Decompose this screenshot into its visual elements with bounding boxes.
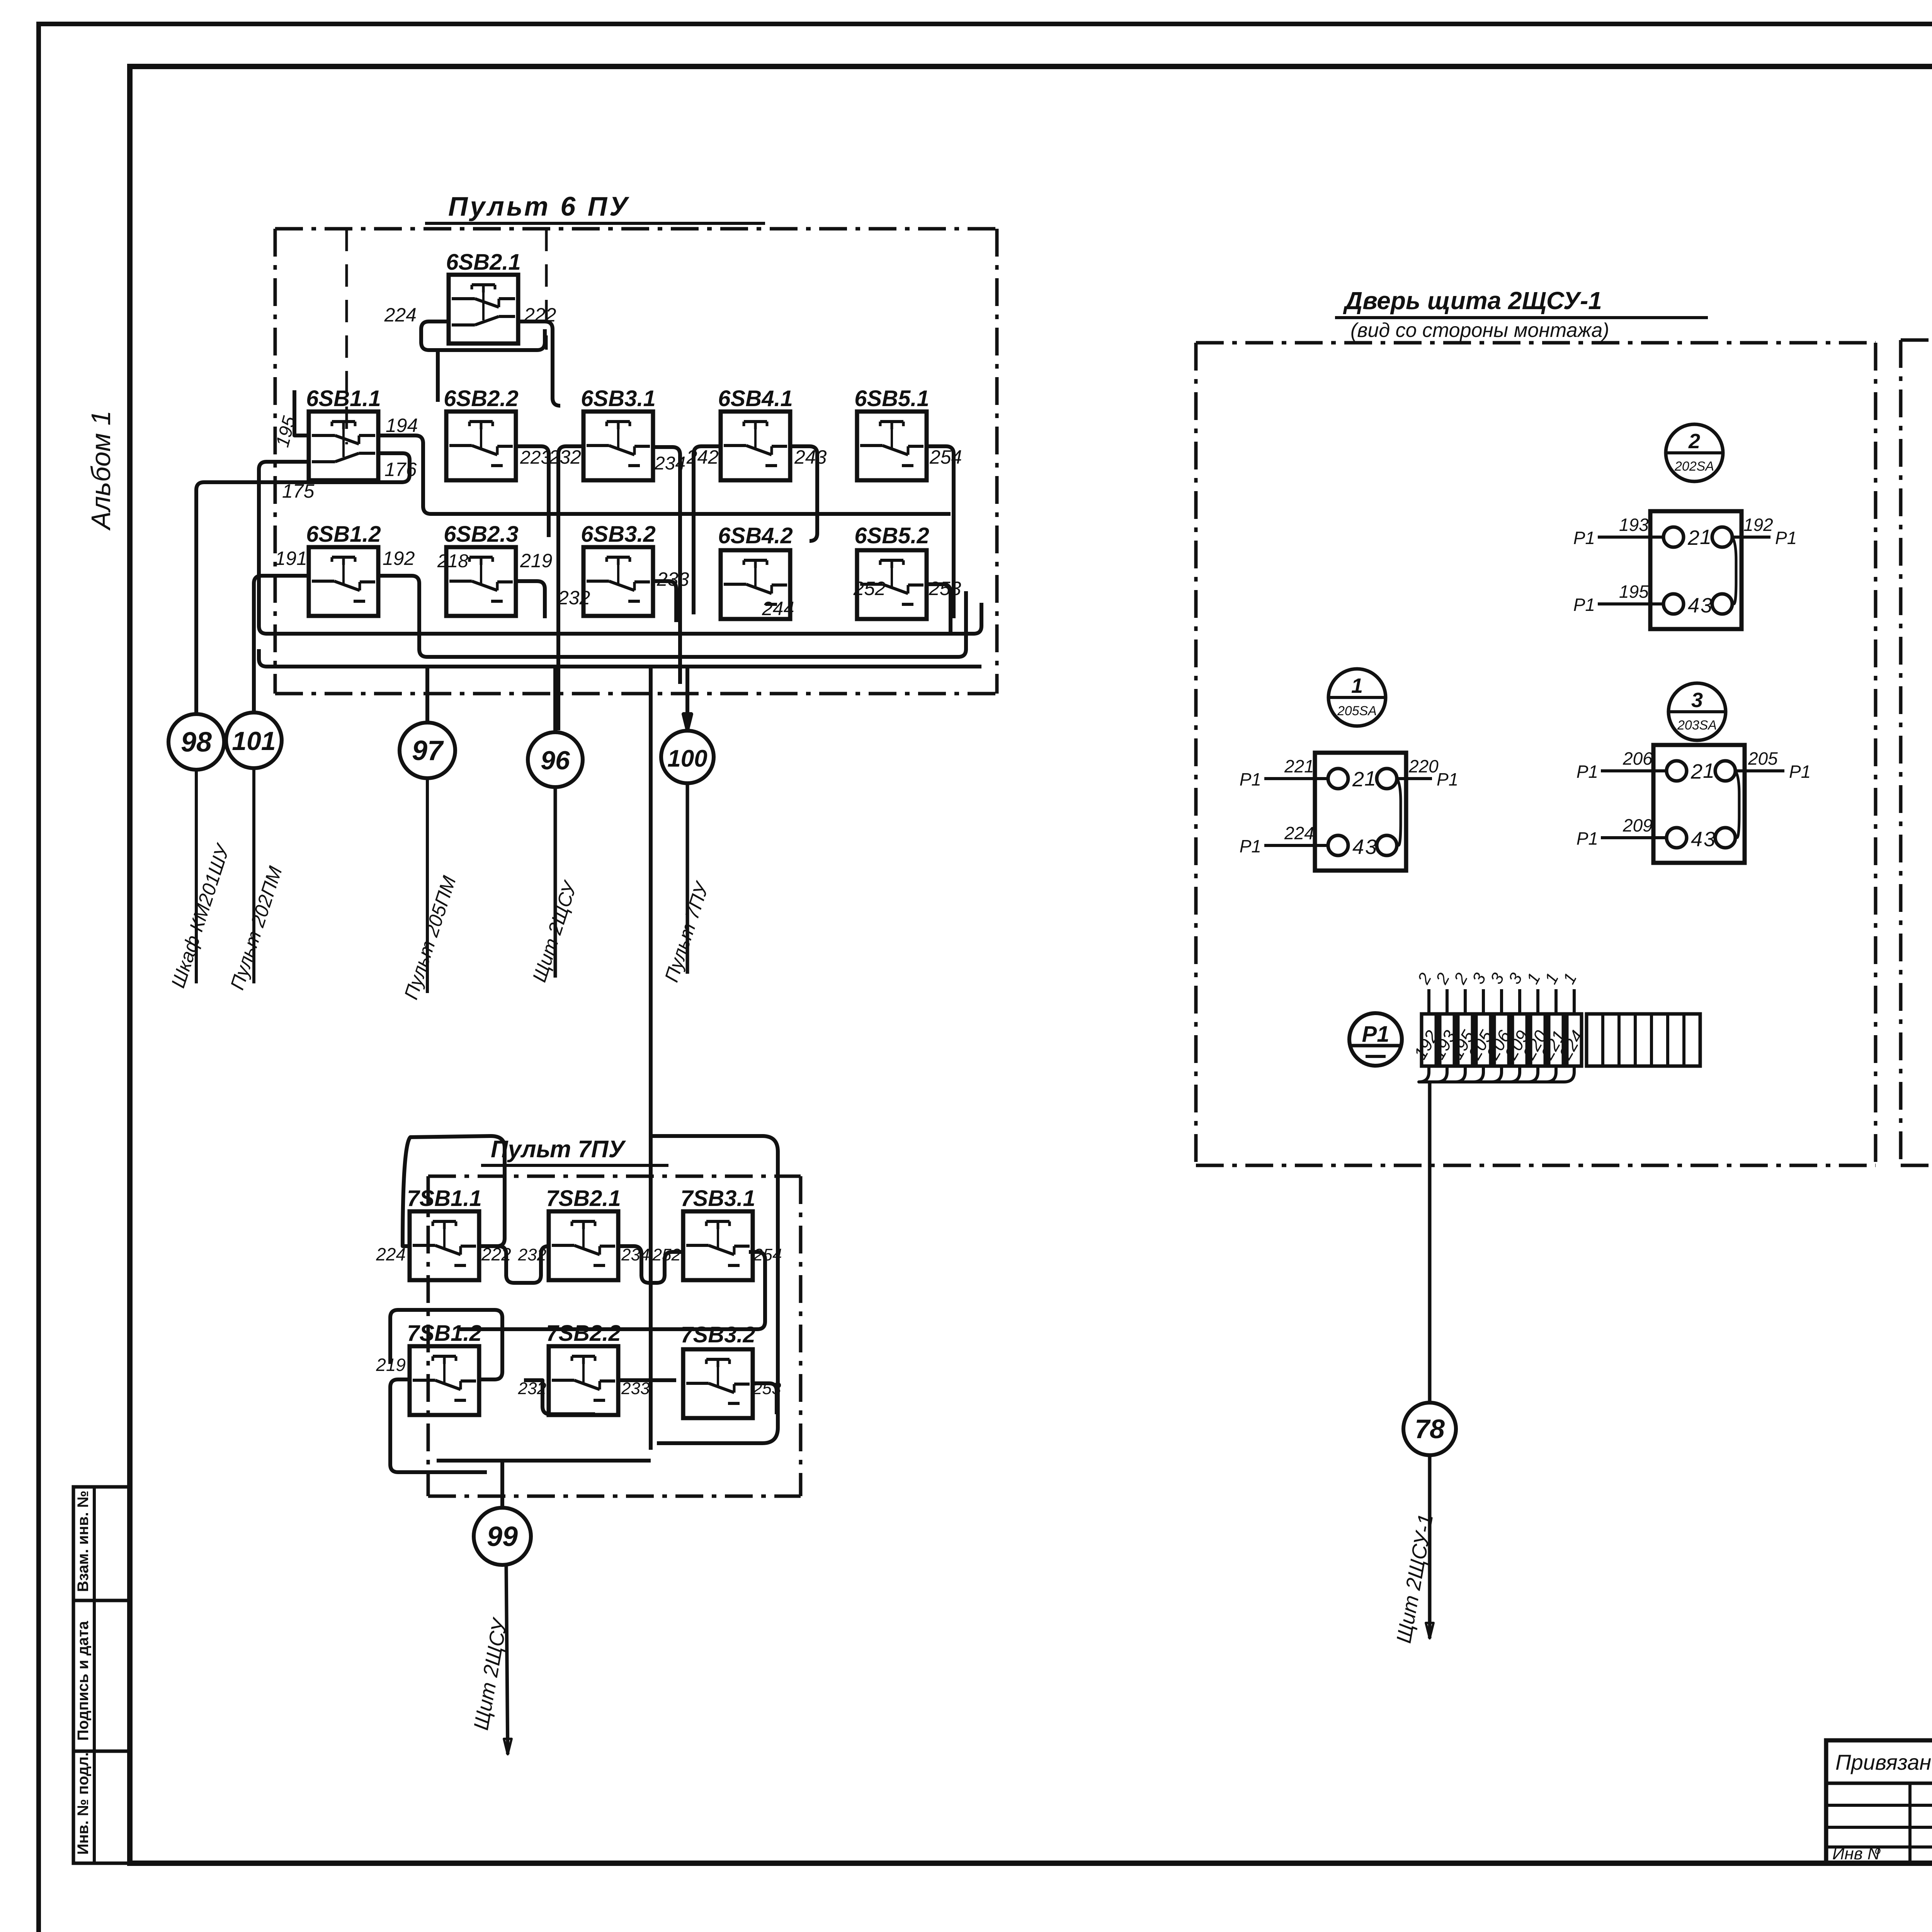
- svg-text:193: 193: [1619, 515, 1649, 535]
- push-button 6SB3.1: [581, 386, 655, 480]
- wire drop 6ПУ to 7ПУ: [649, 667, 653, 1206]
- wire 222-232 link 7SB1.1 to 7SB2.1: [479, 1246, 549, 1283]
- label Пульт 6 ПУ: [425, 191, 765, 223]
- svg-text:1: 1: [1700, 526, 1711, 549]
- wire 219 lead 7SB1.2: [390, 1379, 487, 1472]
- svg-text:101: 101: [232, 726, 276, 756]
- wire 192 P1 from 202SA pin1: [1732, 515, 1797, 548]
- panel box Дверь щита 2ЩСУ-1 (dash-dot): [1196, 343, 1876, 1165]
- wire feeder from 6ПУ down right side of 7ПУ: [649, 667, 653, 1450]
- svg-text:4: 4: [1688, 594, 1699, 617]
- svg-text:6SB2.2: 6SB2.2: [444, 386, 518, 411]
- wire P1 193 to 202SA pin2: [1573, 515, 1663, 548]
- cable to Щит 2ЩСУ-1 with arrow: [1392, 1455, 1438, 1645]
- svg-text:221: 221: [1284, 756, 1314, 776]
- svg-text:(вид со стороны монтажа): (вид со стороны монтажа): [1350, 319, 1609, 342]
- cable to Шкаф КМ201ШУ: [167, 770, 234, 990]
- terminal strip of panel 1: [1410, 970, 1700, 1066]
- svg-text:3: 3: [1701, 594, 1712, 617]
- svg-text:96: 96: [541, 746, 570, 775]
- svg-text:Подпись и дата: Подпись и дата: [75, 1621, 92, 1741]
- svg-text:209: 209: [1622, 815, 1653, 835]
- svg-text:7SB3.1: 7SB3.1: [680, 1186, 755, 1211]
- stamp column box Взам. инв. №: [73, 1487, 130, 1600]
- svg-text:6SB1.2: 6SB1.2: [306, 522, 381, 547]
- wire 175 lead 6SB1.1 lower-left: [259, 462, 981, 634]
- wire 192 from 6SB1.2 right: [377, 576, 966, 657]
- svg-text:206: 206: [1622, 748, 1653, 769]
- wire P1 195 to 202SA pin4: [1573, 582, 1663, 615]
- svg-text:Взам. инв. №: Взам. инв. №: [75, 1491, 92, 1592]
- push-button 7SB2.2: [546, 1321, 621, 1415]
- node 98 (to Шкаф КМ201ШУ): [168, 714, 224, 770]
- svg-text:232: 232: [549, 446, 582, 468]
- svg-text:6SB2.3: 6SB2.3: [444, 522, 518, 547]
- svg-text:205: 205: [1748, 748, 1778, 769]
- wire P1 206 to 203SA pin2: [1577, 748, 1667, 782]
- contact block of 205SA: [1315, 753, 1406, 871]
- svg-text:1: 1: [1703, 759, 1714, 782]
- svg-text:Пульт 6 ПУ: Пульт 6 ПУ: [448, 191, 630, 221]
- panel box Пульт 6 ПУ (dash-dot boundary): [275, 229, 997, 694]
- svg-text:234: 234: [621, 1245, 650, 1264]
- svg-text:99: 99: [487, 1521, 518, 1552]
- svg-text:7SB1.2: 7SB1.2: [407, 1321, 481, 1346]
- svg-text:78: 78: [1415, 1414, 1445, 1444]
- svg-text:6SB4.2: 6SB4.2: [718, 523, 793, 548]
- svg-text:254: 254: [929, 446, 962, 468]
- wire 224 loop under 6SB2.1: [421, 321, 545, 350]
- contact block of 203SA: [1653, 745, 1745, 863]
- svg-text:Привязан: Привязан: [1835, 1750, 1931, 1774]
- wire 232 connection 6SB3.1 left: [558, 446, 583, 730]
- node 78 (Щит 2ЩСУ-1): [1403, 1403, 1456, 1455]
- wire 101 bus up to 6SB1.2 contact 191: [254, 576, 309, 711]
- svg-text:P1: P1: [1240, 836, 1261, 856]
- cable to Пульт 7ПУ: [660, 783, 713, 985]
- svg-text:Инв N: Инв N: [1832, 1844, 1880, 1863]
- svg-text:202SA: 202SA: [1674, 459, 1714, 474]
- stamp column box Подпись и дата: [73, 1600, 130, 1751]
- svg-text:7SB3.2: 7SB3.2: [680, 1322, 755, 1347]
- cable to Пульт 202ПМ: [226, 768, 286, 992]
- svg-text:224: 224: [1284, 823, 1314, 843]
- svg-text:3: 3: [1704, 828, 1715, 851]
- internal dashed divider at x=897: [345, 229, 348, 444]
- push-button 6SB4.2: [718, 523, 793, 619]
- svg-text:P1: P1: [1362, 1022, 1389, 1047]
- svg-text:7SB2.1: 7SB2.1: [546, 1186, 621, 1211]
- svg-text:4: 4: [1691, 828, 1702, 851]
- wire 6SB2.1 to 6SB2.2 drop: [436, 350, 440, 402]
- push-button 6SB3.2: [581, 522, 655, 616]
- wire P1 221 to 205SA pin2: [1240, 756, 1328, 789]
- node 99 (Щит 2ЩСУ): [474, 1508, 531, 1565]
- push-button 7SB3.2: [680, 1322, 755, 1418]
- connector P1: [1349, 1013, 1402, 1066]
- node 100 (to Пульт 7ПУ): [661, 731, 714, 783]
- svg-text:Инв. № подл.: Инв. № подл.: [75, 1752, 92, 1855]
- internal dashed divider at x=1414: [545, 229, 548, 350]
- svg-text:Альбом 1: Альбом 1: [86, 410, 116, 531]
- svg-text:P1: P1: [1437, 769, 1458, 789]
- cable to Пульт 205ПМ: [400, 778, 460, 1002]
- push-button 6SB2.3: [444, 522, 518, 616]
- push-button 6SB1.1: [306, 386, 381, 480]
- wire 7SB1.2 upper loop: [390, 1310, 502, 1379]
- svg-text:192: 192: [1743, 515, 1773, 535]
- wire 195 vertical lead 6SB1.1: [294, 390, 309, 435]
- selector switch 1/205SA: [1328, 669, 1386, 726]
- wire 254 loop from 7SB3.1 down: [460, 1252, 765, 1329]
- svg-text:195: 195: [1619, 582, 1649, 602]
- push-button 7SB1.1: [407, 1186, 481, 1280]
- cable to Щит 2ЩСУ: [528, 787, 582, 985]
- label Пульт 7ПУ: [481, 1136, 668, 1165]
- svg-text:4: 4: [1352, 835, 1364, 859]
- svg-text:6SB5.2: 6SB5.2: [854, 523, 929, 548]
- wire 233-253 link to bottom bus: [618, 1380, 777, 1414]
- svg-text:194: 194: [386, 415, 418, 436]
- push-button 7SB1.2: [407, 1321, 481, 1415]
- wire 232-233 row link 7SB2.2: [524, 1380, 595, 1414]
- node 96 (to Щит 2ЩСУ): [528, 732, 583, 787]
- panel box Пульт 7ПУ (dash-dot boundary): [428, 1176, 801, 1496]
- stamp column box Инв. № подл.: [73, 1751, 130, 1863]
- svg-text:P1: P1: [1573, 528, 1595, 548]
- wire P1 209 to 203SA pin4: [1577, 815, 1667, 849]
- terminal strip 1 outgoing hooks and bus: [1419, 1066, 1574, 1403]
- wire bottom bus of 7ПУ: [437, 1459, 651, 1463]
- svg-text:3: 3: [1691, 689, 1703, 712]
- svg-text:P1: P1: [1577, 828, 1598, 849]
- cable to Щит 2ЩСУ with arrow: [469, 1565, 512, 1754]
- svg-text:6SB3.2: 6SB3.2: [581, 522, 655, 547]
- svg-text:191: 191: [275, 548, 307, 569]
- svg-text:2: 2: [1690, 760, 1702, 783]
- svg-text:3: 3: [1365, 835, 1377, 859]
- push-button 6SB2.2: [444, 386, 518, 480]
- wire drop to circle 100: [685, 667, 689, 731]
- svg-text:205SA: 205SA: [1337, 704, 1377, 718]
- title block small table Привязан: [1826, 1740, 1932, 1863]
- svg-text:2: 2: [1688, 430, 1700, 453]
- push-button 6SB5.1: [854, 386, 929, 480]
- selector switch 2/202SA: [1666, 424, 1723, 481]
- wire 98 bus to 6SB1.1 contact 176: [196, 453, 410, 714]
- svg-text:100: 100: [667, 745, 707, 772]
- svg-text:244: 244: [762, 598, 794, 619]
- svg-text:97: 97: [412, 735, 444, 766]
- svg-text:252: 252: [853, 578, 886, 599]
- svg-text:219: 219: [520, 550, 552, 571]
- wire loop top of 7ПУ: [403, 1136, 505, 1246]
- svg-text:7SB2.2: 7SB2.2: [546, 1321, 621, 1346]
- svg-text:P1: P1: [1775, 528, 1797, 548]
- svg-text:Пульт 7ПУ: Пульт 7ПУ: [491, 1136, 626, 1163]
- svg-text:2: 2: [1687, 526, 1699, 549]
- svg-text:P1: P1: [1573, 595, 1595, 615]
- wire 233 connection 6SB3.2 right: [651, 581, 676, 622]
- wire 222 from 6SB2.1 right: [518, 321, 560, 406]
- wire 223 connection 6SB2.2 right down: [514, 446, 549, 537]
- svg-text:P1: P1: [1789, 762, 1811, 782]
- svg-text:224: 224: [384, 304, 417, 326]
- svg-text:253: 253: [929, 578, 961, 599]
- wire 242 connection 6SB4.1 left: [694, 446, 721, 614]
- svg-text:232: 232: [558, 587, 590, 609]
- push-button 6SB4.1: [718, 386, 793, 480]
- push-button 6SB2.1: [446, 250, 520, 344]
- svg-text:2: 2: [1352, 768, 1364, 791]
- panel box Дверь щита 2ЩСУ-2 (dash-dot): [1901, 340, 1932, 1165]
- svg-text:192: 192: [383, 548, 415, 569]
- svg-text:1: 1: [1364, 767, 1376, 790]
- push-button 7SB3.1: [680, 1186, 755, 1280]
- svg-text:о: о: [1875, 1844, 1881, 1856]
- wire 253 connection 6SB5.2 right: [925, 584, 951, 634]
- wire 220 P1 from 205SA pin1: [1397, 756, 1458, 789]
- wire 243 connection 6SB4.1 right: [790, 446, 817, 541]
- wire branch above 7ПУ to right edge: [651, 1136, 778, 1443]
- wire 254 connection 6SB5.1 right: [927, 446, 954, 618]
- svg-text:242: 242: [686, 446, 719, 468]
- contact block of 202SA: [1650, 511, 1742, 629]
- wire drop to circle 96: [553, 667, 557, 732]
- push-button 6SB1.2: [306, 522, 381, 616]
- wire 205 P1 from 203SA pin1: [1735, 748, 1811, 782]
- wire 234 connection 6SB3.1 right down to bus: [653, 447, 680, 684]
- push-button 6SB5.2: [854, 523, 929, 619]
- selector switch 3/203SA: [1668, 683, 1726, 740]
- svg-text:Дверь щита 2ЩСУ-1: Дверь щита 2ЩСУ-1: [1343, 287, 1602, 315]
- wire 234-252 link 7SB2.1 to 7SB3.1: [618, 1246, 683, 1283]
- svg-text:P1: P1: [1240, 769, 1261, 789]
- svg-text:220: 220: [1408, 756, 1439, 776]
- wire P1 224 to 205SA pin4: [1240, 823, 1328, 856]
- svg-text:6SB1.1: 6SB1.1: [306, 386, 381, 411]
- svg-text:P1: P1: [1577, 762, 1598, 782]
- wire 194 from 6SB1.1 right: [378, 435, 951, 514]
- svg-text:6SB3.1: 6SB3.1: [581, 386, 655, 411]
- wire drop to circle 97: [425, 667, 429, 723]
- svg-text:243: 243: [794, 446, 827, 468]
- svg-text:7SB1.1: 7SB1.1: [407, 1186, 481, 1211]
- svg-text:203SA: 203SA: [1677, 718, 1717, 733]
- node 97 (to Пульт 205ПМ): [400, 723, 455, 778]
- svg-text:98: 98: [181, 727, 212, 758]
- wire bottom bus 1 of 6ПУ: [259, 649, 981, 667]
- svg-text:176: 176: [384, 459, 417, 480]
- label Дверь щита 2ЩСУ-1: [1335, 287, 1708, 342]
- svg-text:6SB2.1: 6SB2.1: [446, 250, 520, 275]
- push-button 7SB2.1: [546, 1186, 621, 1280]
- node 101 (to Пульт 202ПМ): [226, 713, 282, 768]
- wire drop 7ПУ to node 99: [500, 1461, 504, 1508]
- wire 219 connection 6SB2.3 right: [514, 581, 545, 618]
- svg-text:1: 1: [1351, 674, 1363, 697]
- svg-text:6SB5.1: 6SB5.1: [854, 386, 929, 411]
- svg-text:6SB4.1: 6SB4.1: [718, 386, 793, 411]
- svg-text:218: 218: [437, 551, 468, 571]
